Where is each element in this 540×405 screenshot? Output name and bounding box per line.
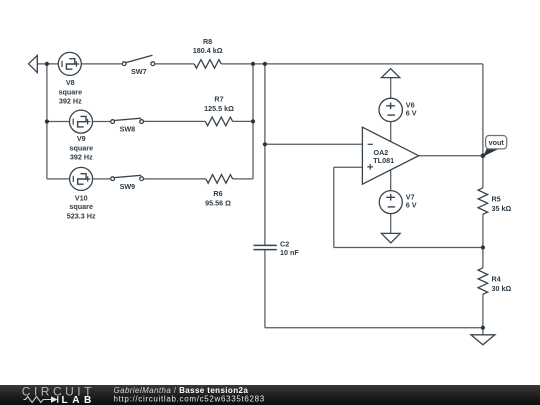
node bus row2 junction bbox=[45, 119, 49, 123]
wire noninverting input horizontal bbox=[334, 166, 363, 168]
op-amp OA2 bbox=[362, 127, 418, 184]
wire R8 to right vertical bbox=[221, 63, 483, 65]
wire feedback node to R4 bbox=[482, 248, 484, 268]
V7 supply arrow down bbox=[382, 233, 401, 243]
wire R7 to line1 bbox=[233, 120, 253, 122]
wire R6 to line1 bbox=[233, 178, 253, 180]
op-amp minus sign bbox=[368, 143, 373, 145]
source V10 bbox=[70, 167, 93, 190]
wire V10 to SW9 bbox=[93, 178, 111, 180]
svg-text:R6: R6 bbox=[213, 189, 222, 198]
svg-text:30 kΩ: 30 kΩ bbox=[492, 284, 512, 293]
wire V6 to op-amp bbox=[390, 122, 392, 142]
capacitor C2 bbox=[254, 245, 277, 249]
svg-text:392 Hz: 392 Hz bbox=[70, 153, 93, 162]
svg-text:R7: R7 bbox=[214, 95, 223, 104]
svg-text:180.4 kΩ: 180.4 kΩ bbox=[193, 46, 223, 55]
node ground rail junction bbox=[481, 326, 485, 330]
switch SW8 bbox=[111, 118, 144, 123]
source V7 bbox=[379, 191, 402, 214]
svg-text:R4: R4 bbox=[492, 274, 501, 283]
resistor R7 bbox=[205, 117, 232, 126]
node line1 top junction bbox=[251, 62, 255, 66]
wire V8 to SW7 bbox=[81, 63, 122, 65]
wire SW7 to R8 bbox=[155, 63, 195, 65]
ground flag left arrow bbox=[29, 56, 38, 73]
wire bus to V9 bbox=[47, 121, 70, 123]
wire ground stub bbox=[482, 328, 484, 335]
wire line2 lower vertical bbox=[264, 250, 266, 328]
resistor R4 bbox=[478, 268, 488, 294]
svg-text:V8: V8 bbox=[66, 78, 75, 87]
svg-text:V9: V9 bbox=[77, 134, 86, 143]
svg-text:vout: vout bbox=[489, 138, 505, 147]
node feedback junction bbox=[481, 245, 485, 249]
svg-text:35 kΩ: 35 kΩ bbox=[492, 204, 512, 213]
wire line2 upper vertical bbox=[264, 64, 266, 245]
wire op-amp output bbox=[419, 155, 483, 157]
wire R4 to bottom rail bbox=[482, 294, 484, 328]
op-amp plus sign bbox=[367, 164, 373, 170]
vout net flag bbox=[483, 136, 507, 157]
svg-text:392 Hz: 392 Hz bbox=[59, 96, 82, 105]
resistor R6 bbox=[206, 175, 233, 184]
svg-text:TL081: TL081 bbox=[373, 156, 394, 165]
V6 supply arrow up bbox=[381, 69, 399, 78]
resistor R5 bbox=[478, 188, 488, 214]
svg-text:523.3 Hz: 523.3 Hz bbox=[67, 211, 96, 220]
svg-text:10 nF: 10 nF bbox=[280, 248, 299, 257]
wire feedback bottom horizontal bbox=[334, 247, 483, 249]
svg-text:125.5 kΩ: 125.5 kΩ bbox=[204, 104, 234, 113]
wire vout to R5 bbox=[482, 156, 484, 188]
source V9 bbox=[70, 110, 93, 133]
ground symbol bottom right bbox=[471, 335, 495, 345]
wire R5 to feedback node bbox=[482, 214, 484, 247]
wire right vertical top bbox=[482, 64, 484, 156]
wire op-amp to V7 bbox=[390, 170, 392, 191]
wire noninverting drop vertical bbox=[333, 167, 335, 247]
footer bar bbox=[0, 385, 540, 405]
wire SW9 to R6 bbox=[144, 178, 206, 180]
svg-text:square: square bbox=[69, 202, 93, 211]
node bus top junction bbox=[45, 62, 49, 66]
switch SW9 bbox=[111, 175, 144, 180]
svg-text:95.56 Ω: 95.56 Ω bbox=[205, 198, 231, 207]
node inverting tap junction bbox=[263, 142, 267, 146]
wire V9 to SW8 bbox=[93, 121, 111, 123]
svg-text:SW7: SW7 bbox=[131, 67, 147, 76]
wire row1 left segment bbox=[37, 63, 58, 65]
node R7 line1 junction bbox=[251, 119, 255, 123]
svg-text:square: square bbox=[59, 87, 83, 96]
wire SW8 to R7 bbox=[144, 120, 206, 122]
node vout junction bbox=[481, 153, 486, 158]
node line2 top junction bbox=[263, 62, 267, 66]
svg-text:6 V: 6 V bbox=[406, 108, 417, 117]
svg-text:SW8: SW8 bbox=[120, 125, 136, 134]
svg-text:SW9: SW9 bbox=[120, 182, 136, 191]
svg-text:R5: R5 bbox=[492, 194, 501, 203]
svg-text:R8: R8 bbox=[203, 37, 212, 46]
switch SW7 bbox=[122, 55, 154, 65]
wire line1 vertical bbox=[252, 64, 254, 179]
CircuitLab logo resistor glyph bbox=[24, 396, 52, 402]
source V6 bbox=[379, 98, 402, 121]
svg-text:LAB: LAB bbox=[62, 394, 96, 405]
wire V6 top stub bbox=[390, 78, 392, 99]
svg-text:square: square bbox=[70, 144, 94, 153]
resistor R8 bbox=[194, 60, 221, 69]
wire bus to V10 bbox=[47, 178, 70, 180]
wire bottom rail bbox=[265, 327, 483, 329]
wire V7 bottom stub bbox=[390, 214, 392, 234]
CircuitLab logo diode glyph bbox=[51, 396, 58, 403]
wire left bus vertical bbox=[46, 64, 48, 179]
svg-text:6 V: 6 V bbox=[406, 201, 417, 210]
wire to inverting input bbox=[265, 143, 363, 145]
source V8 bbox=[58, 52, 81, 75]
svg-text:http://circuitlab.com/c52w6335: http://circuitlab.com/c52w6335t6283 bbox=[114, 394, 265, 403]
